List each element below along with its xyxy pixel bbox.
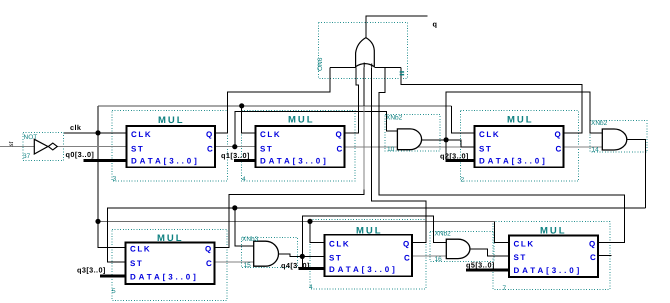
and-gate XNb2-1 [397,129,421,150]
bus q0[3..0] into DATA of U3 [84,159,131,162]
wire inverter output to ST of U3 [58,145,127,147]
and-gate XNb3 dashed box [242,238,298,268]
svg-text:MUL: MUL [507,115,534,126]
svg-text:ST: ST [329,254,342,263]
svg-text:Q: Q [336,130,344,139]
svg-text:C: C [207,145,214,154]
wire XNb3 output branch up and east [302,216,426,257]
svg-text:NOT: NOT [24,134,38,141]
svg-text:C: C [404,254,411,263]
junction clk at U3 [95,130,100,135]
register U7 dashed box [493,222,610,290]
wire C of U2 to XNb2-2 lower input [564,146,603,148]
wire Q of U7 up over to or-gate input5 [379,67,624,242]
wire clk drop to CLK of U5 [98,221,126,247]
wire branch down to XNb2-4 upper input [426,216,446,243]
svg-text:q2[3..0]: q2[3..0] [440,152,469,161]
or-gate ON6 dashed box [319,23,408,79]
wire C of U5 to XNb3 lower input [215,261,254,263]
inverter NOT triangle [34,139,48,154]
svg-text:DATA[3..0]: DATA[3..0] [131,157,200,166]
bus q1[3..0] into DATA of U4 [234,159,259,162]
wire Q of U3 up to or-gate input1 [215,67,330,133]
svg-text:37: 37 [23,153,31,160]
svg-text:clk: clk [70,123,82,132]
svg-text:C: C [206,259,213,268]
junction clk top line [239,103,244,108]
svg-text:C: C [337,145,344,154]
svg-text:q3[3..0]: q3[3..0] [77,266,106,275]
wire branch down to XNb3 upper input [235,208,254,246]
wire XNb2-1 output jog to ST of U2 [446,140,474,147]
svg-text:CLK: CLK [131,130,152,139]
and-gate XNb2-2 [602,129,627,150]
or-gate left input wing [330,66,356,68]
svg-text:Q: Q [205,245,213,254]
junction XNb3 output [300,254,305,259]
wire clk riser up [97,106,99,133]
svg-text:Q: Q [555,130,563,139]
svg-text:q5[3..0]: q5[3..0] [466,261,495,270]
svg-text:XNb2: XNb2 [435,231,452,238]
wire clk drop to CLK of U4 [242,106,256,133]
svg-text:Q: Q [589,240,597,249]
junction C1 net [232,144,237,149]
register U4b body [325,235,413,276]
svg-text:MUL: MUL [540,226,567,237]
wire clk distribution line bottom row [98,220,494,222]
svg-text:Q: Q [403,240,411,249]
wire clk distribution line top row [98,105,452,107]
wire XNb3 output to ST of U4b [279,254,325,256]
wire C of U4b to XNb2-4 lower input [412,255,446,257]
svg-text:4: 4 [309,284,313,291]
svg-text:MUL: MUL [356,226,383,237]
wire Q of U4 up to or-gate input2 [345,67,359,133]
svg-text:7: 7 [503,285,507,292]
wire or-gate input4 net riser [372,67,426,242]
svg-text:CLK: CLK [130,245,151,254]
wire or-gate output to q [366,16,428,38]
inverter NOT bubble [48,143,57,150]
svg-text:MUL: MUL [157,233,184,244]
or-gate inner input stubs [364,63,372,68]
svg-text:ST: ST [260,145,273,154]
bus q4[3..0] into DATA of U4b [298,267,328,270]
register U2 body [475,126,564,167]
svg-text:q: q [433,20,438,29]
svg-text:q1[3..0]: q1[3..0] [221,151,250,160]
wire clk drop to CLK of U7 [494,221,509,242]
and-gate XNb2-1 dashed box [385,115,440,152]
wire C of U4 to ST of U2 and and-gate XNb2-1 lower input [345,146,475,148]
and-gate XNb3 [254,241,279,266]
svg-text:DATA[3..0]: DATA[3..0] [479,157,548,166]
svg-text:4: 4 [242,176,246,183]
svg-text:C: C [556,145,563,154]
svg-text:CLK: CLK [260,130,281,139]
and-gate XNb2-2 dashed box [590,121,647,153]
svg-text:DATA[3..0]: DATA[3..0] [130,273,199,282]
wire clk input stub [64,132,98,134]
svg-text:5: 5 [112,288,116,295]
register U3 dashed box [112,111,228,182]
bus q5[3..0] into DATA of U7 [466,268,512,271]
wire XNb2-1 output up to XNb2-2 input [446,92,602,140]
svg-text:14: 14 [592,147,600,154]
wire and-gate XNb2-1 output [422,139,447,141]
svg-text:DATA[3..0]: DATA[3..0] [260,157,329,166]
svg-text:2: 2 [461,177,465,184]
wire XNb2-4 output to ST of U7 [470,249,509,256]
svg-text:ST: ST [130,259,143,268]
wire C1 net up over to and-gate XNb2-1 input [235,112,398,147]
svg-text:st: st [8,141,15,146]
svg-text:3: 3 [113,176,117,183]
wire clk drop to CLK of U2 [452,106,475,133]
svg-text:XNb2: XNb2 [591,120,608,127]
register U5 body [126,243,215,285]
wire XNb2-2 output long line west to ST of U5 [108,208,646,262]
inverter NOT dashed box [23,133,64,161]
wire st input to inverter [0,145,34,147]
wire C of U7 output stub [598,255,612,257]
or-gate right input wing [374,66,401,68]
svg-text:ST: ST [131,145,144,154]
and-gate XNb2-4 [446,239,470,258]
register U5 dashed box [112,230,227,301]
svg-text:16: 16 [435,256,443,263]
svg-text:MUL: MUL [158,115,185,126]
svg-text:CLK: CLK [514,240,535,249]
svg-text:C: C [590,253,597,262]
svg-text:DATA[3..0]: DATA[3..0] [514,266,583,275]
svg-text:q4[3..0]: q4[3..0] [281,261,310,270]
junction XNb2-1 output [444,137,449,142]
svg-text:15: 15 [244,262,252,269]
svg-text:MUL: MUL [288,115,315,126]
junction XNb3 output to bus q4 [301,256,303,268]
junction clk at U4b [307,219,312,224]
or-gate ON6 [356,38,375,68]
svg-text:DATA[3..0]: DATA[3..0] [329,265,398,274]
svg-text:XNb3: XNb3 [242,236,259,243]
wire C of U3 to ST of U4 [215,146,256,148]
svg-text:Q: Q [206,130,214,139]
register U3 body [127,126,216,167]
and-gate XNb2-4 dashed box [430,232,494,262]
junction XNb2-2 net [232,205,237,210]
svg-text:ON6: ON6 [317,57,324,71]
register U4 body [256,126,345,167]
svg-text:ST: ST [479,145,492,154]
wire clk to CLK of U3 [98,132,127,134]
bus q3[3..0] into DATA of U5 [100,275,129,278]
svg-text:XNb2: XNb2 [386,115,403,122]
register U2 dashed box [461,111,579,182]
svg-text:ST: ST [514,253,527,262]
wire XNb2-1 output down to q2 bus [445,140,447,161]
wire Q of U5 up to or-gate input3 [215,62,365,248]
svg-text:q0[3..0]: q0[3..0] [66,150,95,159]
bus q2[3..0] into DATA of U2 [446,159,479,162]
junction clk bottom riser [95,219,100,224]
register U4 dashed box [242,111,356,182]
register U4b dashed box [310,220,426,290]
svg-text:CLK: CLK [479,130,500,139]
wire Q of U2 up over to or-gate input6 [401,67,582,133]
svg-text:CLK: CLK [329,240,350,249]
wire clk drop to CLK of U4b [310,221,325,242]
register U7 body [509,236,598,278]
svg-text:10: 10 [387,146,395,153]
wire clk riser down to bottom row [97,133,99,222]
wire XNb2-2 output right and down [627,140,646,208]
